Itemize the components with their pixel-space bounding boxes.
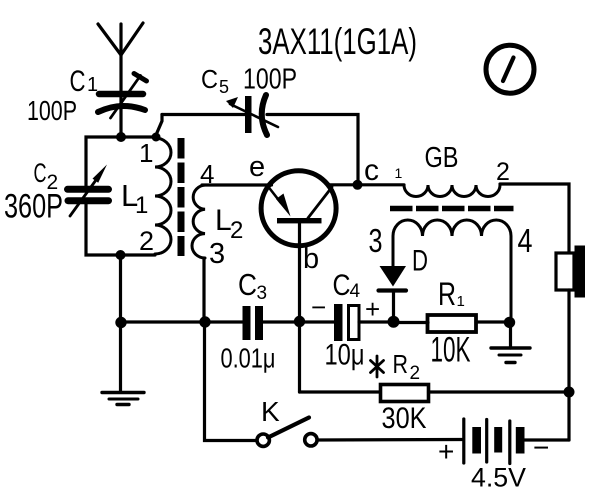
pin label 2 (GB) (496, 158, 510, 186)
label C2 (34, 158, 59, 194)
svg-text:4.5V: 4.5V (471, 463, 526, 493)
label 0.01u (221, 343, 276, 374)
svg-text:360P: 360P (4, 188, 63, 226)
svg-text:D: D (412, 245, 428, 278)
label K (261, 396, 280, 427)
node (rail / L1 branch) (115, 317, 126, 328)
ground (left) (102, 322, 144, 405)
svg-text:+: + (438, 436, 454, 467)
pin label 4 (L2) (200, 159, 214, 189)
transformer GB label (425, 142, 459, 174)
wire GB pin2 to speaker (500, 184, 569, 253)
label C1 (70, 65, 99, 98)
svg-text:3: 3 (257, 283, 268, 304)
wire collector to GB (329, 183, 404, 186)
label 4.5V (471, 463, 526, 493)
svg-text:C: C (238, 267, 257, 302)
figure number circle (486, 45, 534, 93)
svg-text:c: c (364, 154, 379, 187)
svg-text:1: 1 (87, 74, 98, 96)
node (diode/C4/R1) (388, 316, 400, 328)
svg-text:3: 3 (369, 222, 383, 259)
battery 4.5V (464, 419, 569, 464)
capacitor C3 (243, 306, 300, 340)
label b (303, 243, 319, 275)
svg-text:1: 1 (135, 192, 148, 219)
pin label 3 (GB) (369, 222, 383, 259)
svg-text:100P: 100P (27, 95, 77, 126)
capacitor C5 (226, 95, 278, 135)
label 10u (325, 339, 365, 372)
svg-text:2: 2 (139, 226, 154, 256)
svg-text:+: + (365, 294, 380, 324)
pin label 4 (GB) (518, 222, 533, 259)
wire left branch to C2 (86, 137, 121, 189)
switch K (257, 418, 462, 447)
pin label 3 (L2) (209, 238, 225, 270)
wire C2 bottom to L1 bottom (86, 200, 155, 255)
GB secondary winding (393, 220, 511, 319)
base wire down (298, 224, 301, 393)
svg-text:b: b (303, 243, 319, 275)
wire L2 pin4 to emitter (202, 183, 272, 186)
label - (C4 polarity) (311, 292, 326, 322)
speaker (556, 246, 585, 298)
svg-text:4: 4 (350, 281, 361, 302)
label 100P (C5) (243, 64, 297, 96)
svg-text:C: C (333, 269, 351, 302)
diode D (379, 266, 407, 322)
svg-text:C: C (70, 65, 86, 98)
label L1 (121, 178, 148, 219)
label R1 (438, 276, 465, 312)
wire L1 top to C5 corner (156, 115, 162, 136)
ground rail wire (121, 320, 243, 323)
svg-text:e: e (249, 151, 265, 183)
svg-text:−: − (311, 292, 326, 322)
svg-text:2: 2 (230, 217, 243, 244)
GB primary winding (404, 185, 500, 197)
transistor 3AX11 (261, 171, 336, 246)
svg-text:10μ: 10μ (325, 339, 365, 372)
label - (battery) (533, 432, 549, 463)
title 3AX11(1G1A) (258, 20, 417, 62)
node (rail / base) (294, 316, 305, 327)
node (R2 / speaker wire) (564, 387, 575, 398)
label C5 (201, 64, 229, 97)
svg-text:C: C (34, 158, 47, 188)
svg-text:1: 1 (457, 293, 465, 310)
node (R1 right / GB pin4) (504, 317, 515, 328)
svg-text:R: R (393, 349, 409, 379)
svg-text:−: − (533, 432, 549, 463)
svg-text:3AX11(1G1A): 3AX11(1G1A) (258, 20, 417, 62)
ferrite core (L1/L2) (178, 138, 185, 256)
capacitor C1 (98, 74, 147, 119)
label R2 (393, 349, 421, 384)
label 30K (382, 402, 427, 435)
pin label 1 (GB) (395, 165, 403, 181)
svg-text:100P: 100P (243, 64, 297, 96)
label C3 (238, 267, 267, 304)
label L2 (215, 204, 243, 244)
asterisk (R2) (371, 356, 384, 377)
label + (C4 polarity) (365, 294, 380, 324)
node (L1 pin1 junction) (152, 133, 161, 142)
svg-text:3: 3 (209, 238, 225, 270)
label C4 (333, 269, 361, 302)
inductor L2 (192, 185, 205, 258)
wire down to ground rail (119, 255, 122, 322)
wire speaker down (567, 290, 570, 440)
node (antenna/C1 junction) (116, 132, 126, 142)
svg-text:30K: 30K (382, 402, 427, 435)
svg-text:1: 1 (139, 138, 153, 168)
svg-text:1: 1 (395, 165, 403, 181)
label + (battery) (438, 436, 454, 467)
capacitor C2 (68, 165, 109, 217)
pin label 1 (L1) (139, 138, 153, 168)
switch K wire from rail (205, 322, 258, 441)
svg-text:R: R (438, 276, 456, 312)
wire corner to C5 (162, 113, 245, 116)
inductor L1 (155, 138, 171, 254)
svg-text:GB: GB (425, 142, 459, 174)
label D (412, 245, 428, 278)
pin label 2 (L1) (139, 226, 154, 256)
svg-text:2: 2 (496, 158, 510, 186)
wire C3 to C4 (300, 320, 335, 323)
wire node to L1 top node (121, 135, 156, 138)
resistor R1 (398, 315, 505, 332)
GB core (390, 206, 514, 212)
svg-text:10K: 10K (431, 331, 471, 370)
label 10K (431, 331, 471, 370)
node (collector) (353, 180, 363, 190)
wire antenna to node (119, 95, 122, 137)
svg-text:2: 2 (410, 363, 421, 384)
node (rail / L2-switch branch) (199, 316, 210, 327)
svg-text:K: K (261, 396, 280, 427)
resistor R2 (300, 385, 570, 402)
node (L1 pin2 junction) (116, 250, 126, 260)
svg-text:4: 4 (518, 222, 533, 259)
label c (364, 154, 379, 187)
label 360P (C2) (4, 188, 63, 226)
ground (right) (491, 322, 530, 362)
svg-text:0.01μ: 0.01μ (221, 343, 276, 374)
wire L2 bottom down (202, 258, 205, 322)
antenna (98, 23, 143, 95)
label 100P (C1) (27, 95, 77, 126)
svg-text:5: 5 (219, 77, 229, 97)
capacitor C4 (electrolytic) (334, 304, 393, 341)
label e (249, 151, 265, 183)
svg-text:C: C (201, 64, 218, 94)
wire C5 to collector node (267, 115, 358, 185)
